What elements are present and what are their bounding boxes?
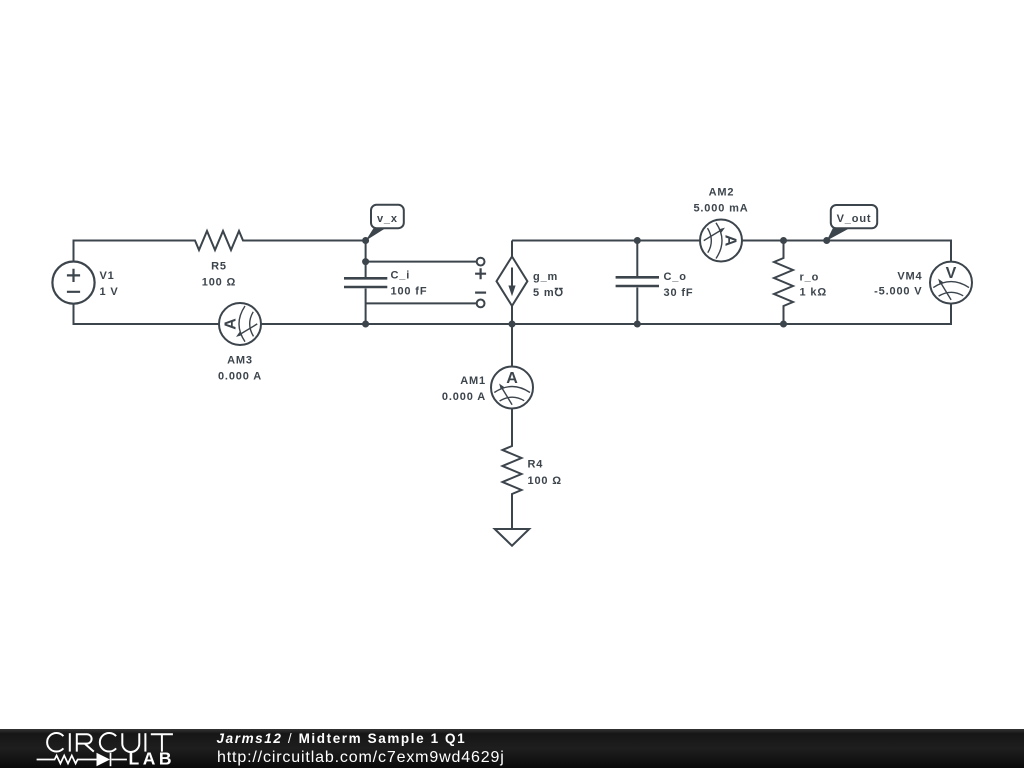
svg-text:100 Ω: 100 Ω [528,475,562,487]
wire: to plus input terminal of g_m [366,261,477,263]
ammeter AM2 [700,220,742,262]
svg-text:r_o: r_o [800,272,820,284]
svg-text:AM3: AM3 [227,355,253,367]
vccs g_m arrow [511,268,513,289]
svg-text:A: A [223,318,240,330]
resistor r_o with leads [774,241,793,325]
svg-text:0.000 A: 0.000 A [442,391,486,403]
vccs g_m diamond [497,257,528,306]
junction dot at node v_x [362,237,369,244]
wire: top rail right (g_m top to AM2 left) [512,240,700,242]
wire: bottom rail left (V1 bottom to AM3 left) [74,304,220,324]
wire: top-left rail (V1 top to node v_x) with R5 zigzag [74,231,366,262]
svg-text:VM4: VM4 [897,271,922,283]
svg-text:30 fF: 30 fF [664,287,694,299]
svg-text:100 fF: 100 fF [391,286,428,298]
wire: node column lower (C_i bottom plate to bottom rail) [365,289,367,325]
svg-text:A: A [506,370,518,387]
wire: g_m top lead [511,241,513,257]
svg-text:0.000 A: 0.000 A [218,371,262,383]
svg-text:R4: R4 [528,459,544,471]
junction dot C_o bottom [634,321,641,328]
capacitor C_o [616,277,659,286]
junction dot C_o top [634,237,641,244]
ammeter AM3 [219,303,261,345]
svg-text:AM1: AM1 [460,375,486,387]
svg-text:5 m℧: 5 m℧ [533,287,564,299]
wire: C_o top lead [636,241,638,278]
svg-text:v_x: v_x [377,213,398,225]
svg-text:1 kΩ: 1 kΩ [800,287,828,299]
svg-text:g_m: g_m [533,271,558,283]
svg-text:LAB: LAB [129,749,175,768]
logo resistor-diode line [37,753,127,766]
voltmeter VM4 [930,262,972,304]
svg-text:A: A [722,235,739,247]
svg-text:-5.000 V: -5.000 V [874,286,922,298]
terminal: g_m plus input [477,258,485,266]
svg-text:C_i: C_i [391,270,411,282]
junction dot r_o bottom [780,321,787,328]
voltage source V1 [52,262,94,304]
svg-text:V1: V1 [100,270,115,282]
svg-text:V: V [946,265,957,282]
junction dot r_o top [780,237,787,244]
ground symbol [495,529,530,546]
wire: C_o bottom lead [636,288,638,325]
svg-text:C_o: C_o [664,271,687,283]
ammeter AM1 [491,367,533,409]
logo CIRCUIT [47,733,173,752]
terminal: g_m minus input [477,300,485,308]
svg-text:100 Ω: 100 Ω [202,277,236,289]
resistor R5 [0,0,1,1]
plus sign of g_m input port [475,268,486,279]
junction dot V_out node [823,237,830,244]
junction dot mid column bottom [362,321,369,328]
svg-text:Jarms12 / Midterm Sample 1 Q1: Jarms12 / Midterm Sample 1 Q1 [217,731,467,746]
junction dot plus-wire tee [362,258,369,265]
wire: g_m bottom lead to AM1 [511,306,513,367]
footer bar [0,729,1024,768]
flag v_x [366,205,404,241]
wire: AM2 right to top-right corner [742,241,951,262]
junction dot g_m bottom [509,321,516,328]
capacitor C_i [344,278,387,287]
svg-text:http://circuitlab.com/c7exm9wd: http://circuitlab.com/c7exm9wd4629j [217,749,505,766]
resistor R4 with leads [503,409,522,530]
svg-text:R5: R5 [211,261,227,273]
svg-text:1 V: 1 V [100,286,119,298]
minus sign of g_m input port [475,292,486,294]
svg-text:V_out: V_out [837,213,872,225]
svg-text:AM2: AM2 [709,187,735,199]
wire: bottom rail (AM3 right to right rail, up to VM4 top... ) [261,304,951,324]
wire: node column upper (node v_x to C_i top plate) [365,241,367,278]
svg-text:5.000 mA: 5.000 mA [693,203,748,215]
wire: to minus input terminal of g_m [366,302,477,304]
flag V_out [827,205,878,241]
